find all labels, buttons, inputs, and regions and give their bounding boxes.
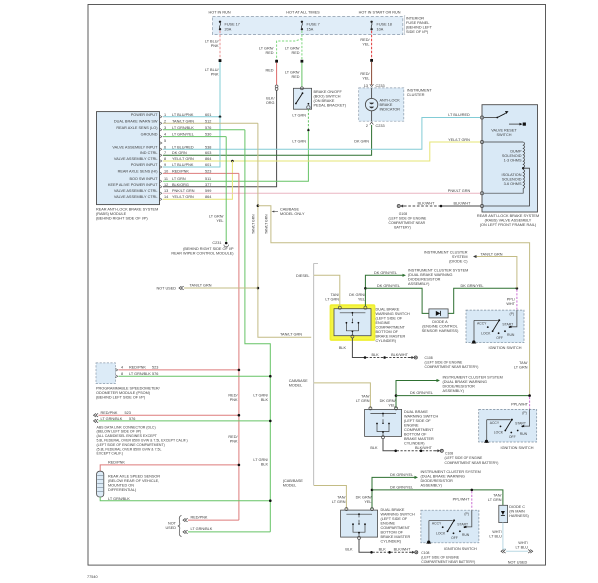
svg-text:BOTTOM OF: BOTTOM OF bbox=[404, 433, 427, 437]
svg-text:TAN/LT GRN: TAN/LT GRN bbox=[481, 252, 503, 256]
svg-text:C233: C233 bbox=[376, 124, 385, 128]
svg-text:1: 1 bbox=[164, 113, 166, 117]
svg-text:WARNING SWITCH: WARNING SWITCH bbox=[404, 415, 438, 419]
svg-text:864: 864 bbox=[205, 157, 211, 161]
svg-text:NOT USED: NOT USED bbox=[508, 561, 528, 565]
svg-text:REAR WIPER CONTROL MODULE): REAR WIPER CONTROL MODULE) bbox=[171, 251, 234, 255]
ground of switch 3 bbox=[359, 540, 370, 553]
svg-text:RED/: RED/ bbox=[228, 394, 238, 398]
svg-text:DIODE/RESISTOR: DIODE/RESISTOR bbox=[443, 384, 476, 388]
ignition switch 1 bbox=[466, 310, 524, 344]
svg-text:YEL/LT GRN: YEL/LT GRN bbox=[448, 138, 470, 142]
svg-text:LT BLU: LT BLU bbox=[489, 535, 502, 539]
svg-text:LT GRN/YEL: LT GRN/YEL bbox=[172, 133, 194, 137]
svg-text:DIFFERENTIAL): DIFFERENTIAL) bbox=[108, 488, 137, 492]
PPL/WHT to ignition 3 bbox=[471, 491, 473, 509]
wire RED/YEL solid to cluster bbox=[371, 62, 373, 85]
svg-text:6: 6 bbox=[164, 145, 166, 149]
svg-text:YEL: YEL bbox=[362, 43, 369, 47]
svg-text:7: 7 bbox=[164, 151, 166, 155]
svg-text:PNK: PNK bbox=[211, 72, 219, 76]
svg-text:DK GRN: DK GRN bbox=[172, 151, 187, 155]
dual brake warning switch 3 bbox=[341, 508, 378, 540]
svg-text:TAN/: TAN/ bbox=[519, 361, 528, 365]
svg-text:RED/PNK: RED/PNK bbox=[101, 411, 118, 415]
svg-text:DIODE C: DIODE C bbox=[509, 505, 525, 509]
svg-text:TAN/LT GRN: TAN/LT GRN bbox=[280, 333, 302, 337]
fuse 18 bbox=[370, 21, 372, 31]
pin 14 wire YEL/LT GRN up to pin 8 bbox=[163, 161, 232, 199]
svg-text:CLUSTER: CLUSTER bbox=[407, 93, 425, 97]
svg-text:(BEHIND RIGHT SIDE OF I/P: (BEHIND RIGHT SIDE OF I/P bbox=[183, 247, 234, 251]
fuse 7 bbox=[301, 21, 303, 31]
pin 2 wire TAN bbox=[163, 122, 258, 124]
svg-text:LT GRN/BLK: LT GRN/BLK bbox=[172, 126, 194, 130]
svg-text:KEEP ALIVE POWER INPUT: KEEP ALIVE POWER INPUT bbox=[108, 183, 158, 187]
svg-text:INTERIOR: INTERIOR bbox=[406, 17, 424, 21]
svg-text:LT GRN/: LT GRN/ bbox=[285, 71, 301, 75]
svg-text:C233: C233 bbox=[376, 84, 385, 88]
svg-text:BLK: BLK bbox=[370, 446, 378, 450]
svg-text:ENGINE: ENGINE bbox=[376, 321, 391, 325]
svg-text:DK GRN/: DK GRN/ bbox=[349, 293, 366, 297]
svg-text:BLK: BLK bbox=[379, 548, 387, 552]
svg-text:(LEFT SIDE OF: (LEFT SIDE OF bbox=[376, 316, 403, 320]
svg-text:WHT/: WHT/ bbox=[492, 530, 503, 534]
svg-text:(LEFT SIDE OF ENGINE COMPARTME: (LEFT SIDE OF ENGINE COMPARTMENT) bbox=[97, 443, 165, 447]
svg-text:LT GRN/BLK: LT GRN/BLK bbox=[108, 497, 130, 501]
svg-text:LT GRN: LT GRN bbox=[325, 298, 339, 302]
svg-text:BRAKE ON/OFF: BRAKE ON/OFF bbox=[314, 90, 343, 94]
svg-text:COMPARTMENT: COMPARTMENT bbox=[404, 428, 434, 432]
svg-text:(RABS) VALVE ASSEMBLY: (RABS) VALVE ASSEMBLY bbox=[485, 219, 532, 223]
svg-text:WARNING SWITCH: WARNING SWITCH bbox=[381, 513, 415, 517]
svg-text:2: 2 bbox=[366, 124, 368, 128]
svg-text:BLK/ORG: BLK/ORG bbox=[172, 183, 189, 187]
svg-text:INDICATOR: INDICATOR bbox=[380, 108, 401, 112]
svg-text:C108: C108 bbox=[425, 356, 433, 360]
left labels bbox=[108, 113, 158, 199]
svg-text:SYSTEM: SYSTEM bbox=[452, 255, 468, 259]
svg-text:TAN/LT GRN: TAN/LT GRN bbox=[252, 214, 256, 234]
ground of switch 1 bbox=[352, 338, 365, 357]
svg-text:TAN/: TAN/ bbox=[337, 495, 346, 499]
svg-text:BLK: BLK bbox=[345, 548, 353, 552]
svg-text:14: 14 bbox=[164, 195, 168, 199]
svg-text:C231: C231 bbox=[212, 241, 221, 245]
svg-text:9: 9 bbox=[164, 163, 166, 167]
svg-text:BATTERY): BATTERY) bbox=[394, 226, 410, 230]
svg-text:TAN/LT GRN: TAN/LT GRN bbox=[265, 214, 269, 234]
svg-text:VALVE RESET: VALVE RESET bbox=[491, 129, 517, 133]
svg-text:2: 2 bbox=[164, 119, 166, 123]
svg-text:(ALL CAB/DIESEL ENGINES EXCEPT: (ALL CAB/DIESEL ENGINES EXCEPT bbox=[97, 434, 158, 438]
svg-text:(5.8L FEDERAL OVER 8500 GVW &: (5.8L FEDERAL OVER 8500 GVW & 7.5L bbox=[97, 447, 162, 451]
svg-text:15A: 15A bbox=[307, 27, 314, 31]
svg-text:13: 13 bbox=[164, 189, 168, 193]
svg-text:VALVE ASSEMBLY CTRL: VALVE ASSEMBLY CTRL bbox=[114, 157, 158, 161]
svg-text:DK GRN/YEL: DK GRN/YEL bbox=[374, 271, 397, 275]
svg-text:CYLINDER): CYLINDER) bbox=[404, 442, 425, 446]
svg-text:SWITCH: SWITCH bbox=[497, 133, 512, 137]
fuse panel note bracket bbox=[404, 16, 405, 35]
svg-text:5: 5 bbox=[164, 139, 166, 143]
svg-text:(LEFT SIDE OF ENGINE: (LEFT SIDE OF ENGINE bbox=[425, 361, 464, 365]
svg-text:YEL: YEL bbox=[364, 500, 371, 504]
svg-text:ASSEMBLY): ASSEMBLY) bbox=[443, 389, 465, 393]
highlight around dual brake warning switch bbox=[331, 305, 375, 340]
DK GRN/YEL wires bbox=[372, 477, 415, 509]
svg-text:BLK: BLK bbox=[372, 353, 380, 357]
svg-text:DK GRN/YEL: DK GRN/YEL bbox=[390, 473, 413, 477]
dual brake warning switch 2 bbox=[365, 407, 402, 439]
svg-text:VALVE ASSEMBLY CTRL: VALVE ASSEMBLY CTRL bbox=[114, 195, 158, 199]
pin 6 wire LT BLU/RED to valve bbox=[163, 118, 481, 150]
svg-text:VALVE ASSEMBLY CTRL: VALVE ASSEMBLY CTRL bbox=[114, 189, 158, 193]
svg-text:RED: RED bbox=[291, 75, 299, 79]
svg-text:77540: 77540 bbox=[87, 575, 98, 579]
svg-text:C108: C108 bbox=[445, 451, 453, 455]
svg-text:PROGRAMMABLE SPEEDOMETER/: PROGRAMMABLE SPEEDOMETER/ bbox=[96, 387, 161, 391]
fuse 17 bbox=[219, 21, 221, 31]
svg-text:BLK/WHT: BLK/WHT bbox=[391, 353, 409, 357]
svg-text:LT GRN/: LT GRN/ bbox=[259, 47, 275, 51]
svg-text:10A: 10A bbox=[377, 27, 384, 31]
svg-text:377: 377 bbox=[205, 183, 211, 187]
svg-text:TAN/: TAN/ bbox=[493, 493, 502, 497]
svg-text:(LEFT SIDE OF: (LEFT SIDE OF bbox=[381, 517, 408, 521]
svg-text:CYLINDER): CYLINDER) bbox=[381, 540, 402, 544]
svg-text:3: 3 bbox=[164, 126, 166, 130]
svg-text:WHT: WHT bbox=[506, 302, 515, 306]
svg-text:DIESEL: DIESEL bbox=[296, 274, 310, 278]
svg-text:COMPARTMENT NEAR BATTERY): COMPARTMENT NEAR BATTERY) bbox=[445, 461, 499, 465]
svg-text:ORG: ORG bbox=[266, 101, 275, 105]
isolation solenoid bbox=[484, 169, 525, 193]
svg-text:TAN/LT GRN: TAN/LT GRN bbox=[172, 119, 194, 123]
svg-text:4: 4 bbox=[164, 133, 166, 137]
svg-text:523: 523 bbox=[152, 366, 158, 370]
svg-text:POWER INPUT: POWER INPUT bbox=[131, 113, 158, 117]
svg-text:(IN MAIN: (IN MAIN bbox=[509, 510, 525, 514]
svg-text:576: 576 bbox=[129, 417, 135, 421]
svg-text:(RABS) MODULE: (RABS) MODULE bbox=[96, 212, 127, 216]
svg-text:DK GRN/YEL: DK GRN/YEL bbox=[461, 284, 484, 288]
svg-text:MOUNTED ON: MOUNTED ON bbox=[108, 483, 134, 487]
svg-text:COMPARTMENT NEAR BATTERY): COMPARTMENT NEAR BATTERY) bbox=[421, 560, 475, 564]
svg-text:YEL: YEL bbox=[216, 219, 223, 223]
ground of switch 2 bbox=[383, 439, 395, 451]
svg-text:576: 576 bbox=[205, 126, 211, 130]
svg-text:PEDAL BRACKET): PEDAL BRACKET) bbox=[314, 104, 347, 108]
PPL/WHT to ignition 2 bbox=[529, 397, 531, 409]
svg-text:DK GRN/: DK GRN/ bbox=[380, 399, 397, 403]
common to BLK/WHT pin bbox=[484, 168, 530, 206]
svg-text:POWER INPUT: POWER INPUT bbox=[131, 163, 158, 167]
svg-text:LT GRN/BLK: LT GRN/BLK bbox=[129, 372, 151, 376]
svg-text:BLK/: BLK/ bbox=[266, 97, 275, 101]
svg-text:MODEL: MODEL bbox=[289, 383, 303, 387]
svg-text:ANTI-LOCK: ANTI-LOCK bbox=[380, 99, 401, 103]
svg-text:VALVE ASSEMBLY INPUT: VALVE ASSEMBLY INPUT bbox=[112, 145, 158, 149]
svg-text:BLK/WHT: BLK/WHT bbox=[394, 548, 412, 552]
svg-text:FUSE PANEL: FUSE PANEL bbox=[406, 21, 429, 25]
svg-text:RED/: RED/ bbox=[360, 72, 370, 76]
svg-text:ODOMETER MODULE (PSOM): ODOMETER MODULE (PSOM) bbox=[96, 391, 151, 395]
svg-text:530: 530 bbox=[205, 133, 211, 137]
svg-text:(CAB/BASE: (CAB/BASE bbox=[283, 479, 304, 483]
svg-text:RED/PNK: RED/PNK bbox=[191, 515, 208, 519]
svg-text:HOT AT ALL TIMES: HOT AT ALL TIMES bbox=[286, 10, 320, 14]
svg-text:COMPARTMENT NEAR BATTERY): COMPARTMENT NEAR BATTERY) bbox=[425, 365, 479, 369]
svg-text:NOT USED: NOT USED bbox=[156, 286, 176, 290]
red trunk RED/PNK x=238.9 bbox=[238, 173, 240, 520]
DK GRN/YEL horizontal through diode A bbox=[365, 288, 429, 313]
valve assembly pin connectors bbox=[480, 116, 483, 119]
svg-text:FUSE 7: FUSE 7 bbox=[307, 22, 320, 26]
svg-text:LT GRN: LT GRN bbox=[292, 114, 306, 118]
svg-text:576: 576 bbox=[152, 372, 158, 376]
wire LT BLU/PNK solid to module pin 1 bbox=[219, 62, 221, 117]
tan branch across top to right side bbox=[258, 206, 530, 396]
svg-text:ENGINE: ENGINE bbox=[404, 424, 419, 428]
svg-text:REAR ANTI-LOCK BRAKE SYSTEM: REAR ANTI-LOCK BRAKE SYSTEM bbox=[477, 214, 539, 218]
svg-text:HOT IN START OR RUN: HOT IN START OR RUN bbox=[359, 10, 401, 14]
svg-text:ISOLATION: ISOLATION bbox=[502, 173, 522, 177]
svg-text:BLK: BLK bbox=[261, 398, 269, 402]
svg-text:YEL/LT GRN: YEL/LT GRN bbox=[172, 157, 194, 161]
svg-text:1-3 OHMS: 1-3 OHMS bbox=[504, 159, 522, 163]
section bracket line bbox=[314, 264, 318, 486]
svg-text:4: 4 bbox=[121, 366, 123, 370]
svg-text:8: 8 bbox=[164, 157, 166, 161]
svg-text:TAN/LT GRN: TAN/LT GRN bbox=[190, 283, 212, 287]
svg-text:ASSEMBLY): ASSEMBLY) bbox=[421, 483, 443, 487]
svg-text:LT GRN/BLK: LT GRN/BLK bbox=[191, 527, 213, 531]
svg-text:(BEHIND LEFT: (BEHIND LEFT bbox=[406, 26, 433, 30]
svg-text:LT GRN/: LT GRN/ bbox=[253, 458, 269, 462]
svg-text:RED: RED bbox=[265, 69, 273, 73]
svg-text:DIODE A: DIODE A bbox=[432, 320, 448, 324]
wire RED/YEL from fuse 18 (dashed red) bbox=[371, 31, 373, 60]
svg-text:TAN/: TAN/ bbox=[361, 395, 370, 399]
svg-text:HOT IN RUN: HOT IN RUN bbox=[209, 10, 231, 14]
svg-text:BRAKE: BRAKE bbox=[380, 103, 393, 107]
svg-text:MODEL ONLY: MODEL ONLY bbox=[280, 212, 305, 216]
svg-text:RED: RED bbox=[265, 51, 273, 55]
svg-text:BRAKE MASTER: BRAKE MASTER bbox=[381, 535, 411, 539]
svg-text:(BELOW REAR OF VEHICLE,: (BELOW REAR OF VEHICLE, bbox=[108, 479, 159, 483]
svg-text:DUAL BRAKE: DUAL BRAKE bbox=[381, 508, 405, 512]
svg-text:LT BLU/: LT BLU/ bbox=[205, 68, 220, 72]
svg-text:538: 538 bbox=[205, 145, 211, 149]
svg-text:LT GRN: LT GRN bbox=[488, 498, 502, 502]
svg-text:BOO SW INPUT: BOO SW INPUT bbox=[129, 177, 158, 181]
svg-text:DIODE/RESISTOR: DIODE/RESISTOR bbox=[408, 277, 441, 281]
svg-text:HARNESS): HARNESS) bbox=[509, 514, 529, 518]
svg-text:PNK: PNK bbox=[230, 440, 238, 444]
wire LT GRN/RED from fuse 7 (dashed, splits) bbox=[277, 31, 302, 60]
svg-text:REAR AXLE SENS (LO): REAR AXLE SENS (LO) bbox=[116, 126, 158, 130]
svg-text:523: 523 bbox=[125, 411, 131, 415]
junction to diode C note / ppl bbox=[516, 287, 519, 290]
svg-text:(LEFT SIDE OF ENGINE: (LEFT SIDE OF ENGINE bbox=[389, 217, 428, 221]
svg-text:SOLENOID: SOLENOID bbox=[502, 154, 522, 158]
svg-text:REAR ANTI-LOCK BRAKE SYSTEM: REAR ANTI-LOCK BRAKE SYSTEM bbox=[96, 207, 158, 211]
svg-text:DUAL BRAKE: DUAL BRAKE bbox=[376, 307, 400, 311]
svg-text:(BEHIND LEFT SIDE OF I/P): (BEHIND LEFT SIDE OF I/P) bbox=[96, 396, 146, 400]
svg-text:PPL/: PPL/ bbox=[507, 298, 516, 302]
svg-text:(LEFT SIDE OF: (LEFT SIDE OF bbox=[404, 419, 431, 423]
dump solenoid bbox=[484, 141, 524, 143]
svg-text:RED/PNK: RED/PNK bbox=[129, 366, 146, 370]
TAN/LT GRN wire into switch 3 bbox=[314, 486, 347, 509]
connector C231 bbox=[225, 242, 228, 245]
pin 1 wire bbox=[163, 116, 220, 118]
svg-text:BRAKE MASTER: BRAKE MASTER bbox=[404, 437, 434, 441]
svg-text:INSTRUMENT CLUSTER: INSTRUMENT CLUSTER bbox=[424, 250, 468, 254]
svg-text:GROUND: GROUND bbox=[141, 133, 158, 137]
ignition switch 3 bbox=[421, 510, 479, 544]
svg-text:8: 8 bbox=[121, 372, 123, 376]
svg-text:601: 601 bbox=[205, 163, 211, 167]
page border frame bbox=[88, 5, 546, 566]
svg-text:LT BLU/PNK: LT BLU/PNK bbox=[172, 113, 194, 117]
svg-text:(DUAL BRAKE WARNING: (DUAL BRAKE WARNING bbox=[408, 273, 452, 277]
svg-text:BRAKE MASTER: BRAKE MASTER bbox=[376, 334, 406, 338]
svg-text:(DIODE C): (DIODE C) bbox=[449, 259, 468, 263]
svg-text:511: 511 bbox=[205, 177, 211, 181]
svg-text:20A: 20A bbox=[225, 27, 232, 31]
svg-text:RED/PNK: RED/PNK bbox=[108, 460, 125, 464]
svg-text:BLK: BLK bbox=[339, 346, 347, 350]
svg-text:DK GRN/: DK GRN/ bbox=[356, 495, 373, 499]
svg-text:PNK/LT GRN: PNK/LT GRN bbox=[448, 189, 471, 193]
svg-text:COMPARTMENT NEAR: COMPARTMENT NEAR bbox=[389, 221, 426, 225]
svg-text:INSTRUMENT: INSTRUMENT bbox=[407, 88, 433, 92]
pin 3 wire LT GRN/BLK bbox=[163, 129, 245, 131]
svg-text:BOTTOM OF: BOTTOM OF bbox=[376, 330, 399, 334]
svg-text:BLK/WHT: BLK/WHT bbox=[415, 446, 433, 450]
svg-text:WARNING SWITCH: WARNING SWITCH bbox=[376, 312, 410, 316]
svg-text:RED/: RED/ bbox=[228, 435, 238, 439]
svg-text:(ENGINE CONTROL: (ENGINE CONTROL bbox=[422, 324, 457, 328]
svg-text:LT GRN: LT GRN bbox=[292, 140, 306, 144]
pin 4 wire LT GRN/YEL bbox=[163, 136, 226, 138]
svg-text:IGNITION SWITCH: IGNITION SWITCH bbox=[501, 446, 534, 450]
svg-text:IGNITION SWITCH: IGNITION SWITCH bbox=[444, 547, 477, 551]
DK GRN/YEL wire from switch 1 bbox=[365, 275, 403, 306]
svg-text:LT BLU/RED: LT BLU/RED bbox=[448, 113, 470, 117]
svg-text:512: 512 bbox=[205, 119, 211, 123]
pin 9 wire + vertical to pin1 junction bbox=[163, 117, 220, 167]
svg-text:INSTRUMENT CLUSTER SYSTEM: INSTRUMENT CLUSTER SYSTEM bbox=[421, 470, 481, 474]
svg-text:DK GRN/YEL: DK GRN/YEL bbox=[390, 486, 413, 490]
wire DK GRN from cluster to module pin 7 bbox=[163, 125, 372, 155]
svg-text:YEL: YEL bbox=[388, 404, 395, 408]
svg-text:SENSOR HARNESS): SENSOR HARNESS) bbox=[422, 329, 459, 333]
svg-text:SIDE OF I/P): SIDE OF I/P) bbox=[406, 30, 429, 34]
svg-text:IGNITION SWITCH: IGNITION SWITCH bbox=[489, 346, 522, 350]
pin 10 wire RED/PNK bbox=[163, 172, 239, 174]
svg-text:864: 864 bbox=[205, 195, 211, 199]
green trunk LT GRN/BLK x=244.9 jog to 270.3 bbox=[245, 130, 270, 532]
svg-text:YEL/LT GRN: YEL/LT GRN bbox=[172, 195, 194, 199]
svg-text:LT GRN/: LT GRN/ bbox=[285, 47, 301, 51]
svg-text:BLK: BLK bbox=[261, 463, 269, 467]
svg-text:IND CTRL: IND CTRL bbox=[140, 151, 158, 155]
svg-text:BOTTOM OF: BOTTOM OF bbox=[381, 531, 404, 535]
BLK/WHT ground wire to G108 bbox=[397, 205, 405, 208]
svg-text:C108: C108 bbox=[421, 551, 429, 555]
svg-text:G108: G108 bbox=[399, 212, 407, 216]
svg-text:LT GRN: LT GRN bbox=[332, 500, 346, 504]
svg-text:MODEL: MODEL bbox=[283, 483, 297, 487]
svg-text:(BELOW LEFT SIDE OF I/P): (BELOW LEFT SIDE OF I/P) bbox=[97, 430, 142, 434]
svg-text:LT GRN/: LT GRN/ bbox=[209, 214, 225, 218]
svg-text:12: 12 bbox=[164, 183, 168, 187]
svg-text:ENGINE: ENGINE bbox=[381, 522, 396, 526]
DK GRN/YEL wires bbox=[396, 381, 437, 409]
svg-text:USED: USED bbox=[165, 526, 176, 530]
svg-text:CYLINDER): CYLINDER) bbox=[376, 339, 397, 343]
tan trunk TAN/LT GRN x=257.9 bbox=[258, 123, 311, 337]
CAB/BASE MODEL ONLY pointer bbox=[274, 211, 279, 213]
svg-text:523: 523 bbox=[205, 169, 211, 173]
ignition switch 2 bbox=[479, 409, 537, 443]
svg-text:LT BLU/RED: LT BLU/RED bbox=[172, 145, 194, 149]
WHT/LT BLU to not used bbox=[503, 523, 506, 549]
svg-text:LT GRN: LT GRN bbox=[172, 177, 186, 181]
svg-text:(BEHIND RIGHT SIDE OF I/P): (BEHIND RIGHT SIDE OF I/P) bbox=[96, 216, 148, 220]
svg-text:DK GRN/YEL: DK GRN/YEL bbox=[410, 391, 433, 395]
svg-text:YEL: YEL bbox=[362, 76, 369, 80]
svg-text:REAR AXLE SENS (HI): REAR AXLE SENS (HI) bbox=[118, 169, 159, 173]
svg-text:LT GRN: LT GRN bbox=[514, 366, 528, 370]
svg-text:(DUAL BRAKE WARNING: (DUAL BRAKE WARNING bbox=[443, 380, 487, 384]
svg-text:RED/: RED/ bbox=[360, 38, 370, 42]
wire RED to inline connector bbox=[276, 63, 278, 86]
svg-text:ABS DATA LINK CONNECTOR (DLC): ABS DATA LINK CONNECTOR (DLC) bbox=[97, 425, 156, 429]
pin 4 down to C231 bbox=[225, 137, 227, 242]
svg-text:FUSE 18: FUSE 18 bbox=[377, 22, 392, 26]
svg-text:ASSEMBLY): ASSEMBLY) bbox=[408, 282, 430, 286]
wire BLK/ORG down to module pin 12 bbox=[163, 90, 277, 186]
diode A bbox=[429, 309, 448, 318]
instrument cluster (anti-lock indicator) bbox=[359, 88, 404, 121]
svg-text:599: 599 bbox=[205, 189, 211, 193]
svg-text:WHT/: WHT/ bbox=[518, 541, 529, 545]
svg-text:INSTRUMENT CLUSTER SYSTEM: INSTRUMENT CLUSTER SYSTEM bbox=[443, 375, 503, 379]
svg-text:LT GRN/: LT GRN/ bbox=[253, 394, 269, 398]
wire LT GRN/RED to BOO switch bbox=[301, 63, 303, 87]
svg-text:BLK/WHT: BLK/WHT bbox=[454, 201, 472, 205]
svg-text:COMPARTMENT: COMPARTMENT bbox=[376, 325, 406, 329]
svg-text:13: 13 bbox=[364, 84, 368, 88]
svg-text:(LEFT SIDE OF ENGINE: (LEFT SIDE OF ENGINE bbox=[445, 456, 484, 460]
svg-text:(LEFT SIDE OF ENGINE: (LEFT SIDE OF ENGINE bbox=[421, 555, 460, 559]
PPL/WHT to ignition 1 bbox=[516, 290, 518, 310]
svg-text:PNK: PNK bbox=[230, 398, 238, 402]
svg-text:(DUAL BRAKE WARNING: (DUAL BRAKE WARNING bbox=[421, 474, 465, 478]
svg-text:10: 10 bbox=[164, 169, 168, 173]
pin chevrons bbox=[160, 115, 162, 200]
pin 13 wire PNK/LT GRN to valve bbox=[163, 192, 481, 194]
svg-text:LT BLU/: LT BLU/ bbox=[205, 40, 220, 44]
svg-text:DUAL BRAKE: DUAL BRAKE bbox=[404, 410, 428, 414]
svg-text:SOLENOID: SOLENOID bbox=[502, 178, 522, 182]
pin numbers / wire names / circuit numbers bbox=[164, 113, 211, 199]
